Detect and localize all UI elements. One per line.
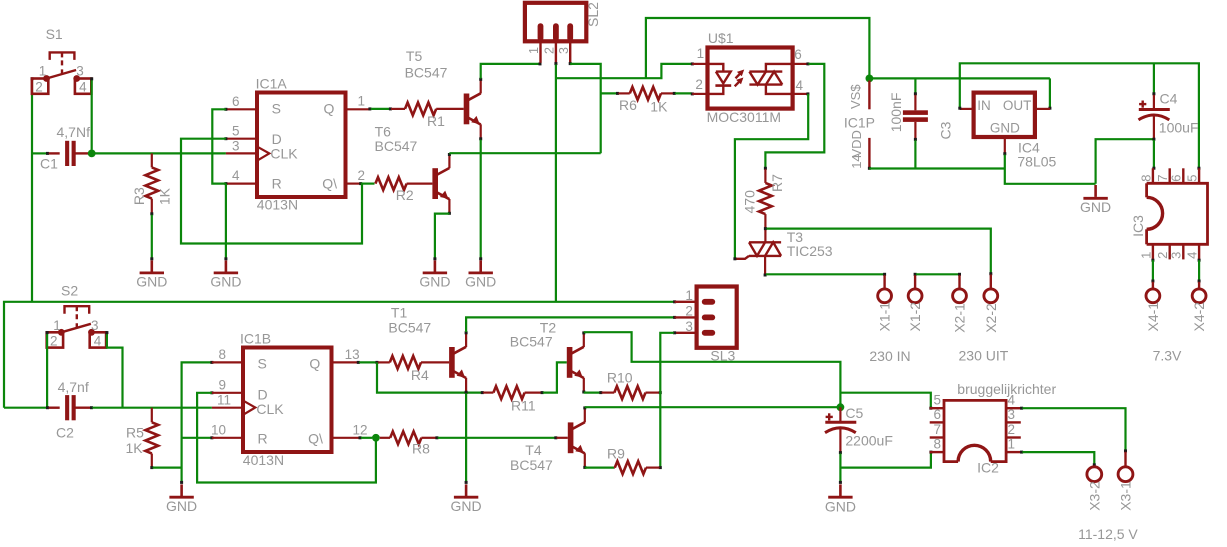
transistor T4 BC547 [510,407,585,473]
svg-text:T1: T1 [391,305,408,321]
ground GND under T5 [465,257,496,289]
capacitor C3 100nF [888,78,953,168]
IC IC3 (DIL8) [1130,183,1207,244]
pin 2 of U$1 [691,77,708,95]
svg-text:X4-1: X4-1 [1145,302,1161,332]
wire C4 bottom to IC3 pin8 [1152,140,1155,170]
svg-text:4: 4 [232,168,240,183]
pin 4 of IC2 [1006,393,1021,409]
pin 3 of IC2 [1006,407,1021,423]
svg-text:S2: S2 [61,283,78,299]
wire 12V rail right [958,63,1200,169]
pin 7 of IC3 [1155,168,1170,183]
svg-text:1: 1 [358,94,366,109]
terminal X2-1 [952,275,968,333]
terminal X4-2 [1191,282,1207,332]
node VS junction dot [866,75,874,83]
svg-text:7: 7 [1155,175,1170,182]
wire X1-2 to X2-1 [914,273,961,276]
pin 7 of IC2 [930,422,944,438]
svg-text:5: 5 [232,124,240,139]
svg-text:3: 3 [1169,252,1184,259]
svg-text:S: S [272,100,281,116]
ground GND under R5/IC1B [166,481,197,514]
terminal X3-1 [1118,452,1134,511]
svg-text:3: 3 [557,47,571,54]
svg-text:2: 2 [35,80,43,95]
svg-text:1: 1 [685,288,693,303]
wire IC2 pin1 to X3-2 [1020,451,1096,467]
pin 2 of SL3 [675,304,697,319]
transistor T5 BC547 [405,48,481,139]
wire R5 bottom to gnd net [153,467,182,469]
svg-text:1K: 1K [157,187,173,205]
capacitor C5 2200uF [825,405,893,454]
svg-text:8: 8 [218,347,226,362]
svg-text:IC1A: IC1A [256,76,288,92]
svg-text:7: 7 [933,422,941,437]
wire T1 collector to SL3 pin2 [465,316,676,334]
svg-text:GND: GND [1080,199,1111,215]
LED inside U$1 [708,64,732,94]
svg-text:C4: C4 [1160,90,1178,106]
svg-text:2: 2 [685,304,693,319]
svg-text:100nF: 100nF [888,93,904,133]
power pin VDD of IC1P [849,130,871,170]
ground GND under IC1A [210,257,241,289]
optocoupler U$1 MOC3011M [707,30,793,125]
svg-text:230 IN: 230 IN [869,348,910,364]
svg-text:R11: R11 [511,397,536,413]
pin 5 of IC2 [930,393,944,409]
svg-text:X3-2: X3-2 [1086,481,1102,511]
resistor R4 [378,356,449,383]
svg-text:R8: R8 [412,441,430,457]
pin 6 of U$1 [793,47,808,64]
label 230 IN [869,348,910,364]
pin 2 Q\ of IC1A [346,168,366,184]
svg-text:4013N: 4013N [243,452,284,468]
svg-text:BC547: BC547 [405,65,448,81]
svg-text:Q\: Q\ [322,176,337,192]
svg-text:7.3V: 7.3V [1153,348,1182,364]
svg-text:3: 3 [685,319,693,334]
svg-text:C1: C1 [40,156,58,172]
svg-text:IC1B: IC1B [240,331,271,347]
svg-text:3: 3 [76,64,84,79]
svg-text:470: 470 [741,190,757,214]
voltage regulator IC4 78L05 [974,93,1057,170]
connector SL3 [697,287,737,364]
svg-text:BC547: BC547 [388,320,431,336]
pin 5 of IC3 [1184,168,1199,183]
wire T3 MT1 to X1-1 [764,273,887,277]
svg-text:1: 1 [1138,252,1153,259]
wire rail S2 row [4,300,676,407]
svg-text:Q: Q [309,355,320,371]
svg-text:R10: R10 [607,369,633,385]
capacitor C2 4,7nf [46,379,93,440]
pin 1 of U$1 [692,46,707,64]
svg-text:2: 2 [1155,252,1170,259]
pin 6 of IC2 [930,407,944,423]
wire SL2 pin3 to T6 collector [569,62,601,153]
svg-text:BC547: BC547 [375,138,418,154]
pin 8 of IC2 [930,437,944,453]
svg-text:BC547: BC547 [510,334,553,350]
svg-text:U$1: U$1 [708,30,734,46]
pin 8 of IC3 [1138,168,1153,183]
label 230 UIT [959,348,1009,364]
svg-text:R: R [272,176,282,192]
wire T5 emitter to ground [479,137,482,258]
svg-text:10: 10 [211,422,226,437]
svg-text:100uF: 100uF [1159,119,1199,135]
svg-text:3: 3 [91,318,99,333]
wire VDD rail to IC4 gnd net [869,167,1004,169]
svg-text:S: S [258,355,267,371]
ground GND under R3 [136,257,167,289]
transistor T2 BC547 [510,320,584,393]
svg-text:S1: S1 [46,26,63,42]
pin 5 D of IC1A [226,124,257,139]
resistor R7 470 [741,169,785,242]
pin 13 Q of IC1B [332,347,360,363]
IC op-amp IC1A 4013N flip-flop [256,76,346,213]
wire T2 collector to C5 node [582,331,840,406]
terminal X4-1 [1145,282,1161,332]
pin 3 CLK of IC1A [226,138,257,153]
svg-text:1: 1 [39,64,47,79]
svg-text:C2: C2 [56,424,74,440]
ground GND under T1 [451,481,482,514]
svg-text:2: 2 [695,77,703,92]
svg-text:11: 11 [217,393,231,408]
pin 4 of IC3 [1184,244,1199,259]
wire top rail to VS node [646,18,870,78]
pin 6 S of IC1A [226,94,257,109]
wire R8 to T4 base [438,436,568,439]
svg-text:GND: GND [210,274,241,290]
svg-text:X2-1: X2-1 [952,303,968,333]
wire S-R tie of IC1A [212,108,227,185]
svg-text:IN: IN [977,98,991,113]
svg-text:T4: T4 [525,442,542,458]
resistor R10 [602,369,662,399]
svg-text:13: 13 [345,347,360,362]
terminal X3-2 [1086,466,1102,511]
light arrows inside U$1 [735,70,745,87]
svg-text:CLK: CLK [270,146,298,162]
svg-text:2: 2 [358,168,366,183]
wire R3 to ground [150,212,153,258]
svg-text:GND: GND [166,498,197,514]
pin 1 Q of IC1A [346,94,371,110]
svg-text:X1-2: X1-2 [907,302,923,332]
pin 8 S of IC1B [212,347,243,362]
svg-text:6: 6 [794,47,802,62]
pin 4 of U$1 [793,78,808,94]
wire R11 to T2 base [543,362,567,392]
svg-text:1: 1 [1008,437,1016,452]
svg-text:GND: GND [451,498,482,514]
svg-text:R3: R3 [131,187,147,205]
pin 12 Q\ of IC1B [332,422,368,438]
pin 4 R of IC1A [226,168,257,184]
pin 3 of IC3 [1169,244,1184,259]
svg-text:4: 4 [796,78,804,93]
pin OUT of IC4 [1035,108,1050,110]
resistor R3 1K [131,153,173,213]
svg-text:C5: C5 [845,405,863,421]
svg-text:R1: R1 [427,113,445,129]
wire pin12 to R8 node [359,436,373,439]
wire IC4 gnd to C4 gnd net [1005,139,1153,184]
wire T4 emitter to R9 [583,466,614,469]
svg-text:4: 4 [1184,252,1199,259]
terminal X1-2 [907,275,923,331]
svg-text:3: 3 [232,138,240,153]
wire C5 bottom to IC2 pin8 and ground [840,451,932,482]
svg-text:GND: GND [990,121,1020,136]
wire pin13 to R4 [357,361,379,364]
pin 1 of IC3 [1138,244,1153,259]
svg-text:X4-2: X4-2 [1191,302,1207,332]
svg-text:6: 6 [933,407,941,422]
svg-text:4: 4 [94,334,102,349]
svg-text:X2-2: X2-2 [983,303,999,333]
svg-text:4: 4 [79,80,87,95]
triac T3 TIC253 [736,229,833,274]
capacitor C1 4,7Nf [40,124,90,172]
resistor R9 [607,445,660,474]
wire T6 emitter to ground [435,212,451,258]
wire T4 collector to C5 node [583,406,840,409]
svg-text:14: 14 [849,154,864,168]
wire C2 to CLK row B [92,407,212,409]
svg-text:9: 9 [218,378,226,393]
wire U$1 pin6 to R7 [764,62,824,169]
node R8 junction dot [372,434,380,442]
svg-text:T5: T5 [406,48,423,64]
wire T6 collector net [448,153,601,156]
wire SL2 pin2 down to rail [554,62,557,302]
svg-text:1: 1 [697,46,705,61]
label 7.3V [1153,348,1182,364]
wire T5 collector to SL2 pin1 [479,62,541,80]
resistor R1 [368,103,463,130]
svg-text:GND: GND [465,274,496,290]
wire S1 pin4 down [90,77,93,150]
svg-text:6: 6 [1169,175,1184,182]
resistor R6 1K [601,87,692,114]
photo-triac inside U$1 [749,64,792,94]
svg-text:2: 2 [50,334,58,349]
capacitor C4 100uF [1139,63,1199,140]
pin 11 CLK of IC1B [212,393,243,408]
svg-text:MOC3011M: MOC3011M [707,109,781,125]
bridge rectifier IC2 [944,381,1056,476]
pin IN of IC4 [960,108,974,110]
wire S2 pin4 down [105,331,122,408]
wire C5 node to IC2 pin5 [840,393,932,410]
svg-text:R5: R5 [126,424,144,440]
ground GND under IC4 [1080,185,1111,215]
svg-text:4: 4 [1008,393,1016,408]
svg-text:GND: GND [419,274,450,290]
svg-text:2: 2 [1008,422,1016,437]
svg-text:230 UIT: 230 UIT [959,348,1009,364]
pin 1 of SL3 [675,288,697,303]
svg-text:8: 8 [933,437,941,452]
power pin VSS of IC1P [848,81,869,110]
wire T1 base node to R11 [377,362,484,394]
svg-text:R: R [258,431,268,447]
svg-text:6: 6 [232,94,240,109]
svg-text:Q: Q [324,100,335,116]
transistor T6 BC547 [375,123,450,214]
pin 1 of IC2 [1006,437,1021,453]
wire IC1A R to ground [225,184,227,259]
svg-text:BC547: BC547 [510,457,553,473]
pin 10 R of IC1B [211,422,243,438]
svg-text:2: 2 [542,47,556,54]
svg-text:IC1P: IC1P [844,115,875,131]
wire R7/triac MT2 node to X2-2 [764,227,992,275]
wire T2 emitter to R10 [582,391,602,395]
svg-text:4,7nf: 4,7nf [58,379,89,395]
switch S2 [47,283,106,349]
svg-text:GND: GND [825,498,856,514]
svg-text:8: 8 [1138,175,1153,182]
svg-text:IC2: IC2 [977,459,999,475]
svg-text:IC3: IC3 [1130,215,1146,237]
resistor R8 [380,431,439,456]
pin 6 of IC3 [1169,168,1184,183]
pin 2 of IC2 [1006,422,1021,438]
svg-text:1: 1 [53,318,61,333]
wire IC3 pin4 to X4-2 [1198,259,1201,283]
svg-text:R4: R4 [411,367,429,383]
svg-text:C3: C3 [937,121,953,139]
wire C1 to CLK row [92,152,226,154]
transistor T1 BC547 [388,305,466,393]
svg-text:R7: R7 [769,174,785,192]
svg-text:SL2: SL2 [585,2,601,27]
svg-text:1K: 1K [650,98,668,114]
svg-text:R2: R2 [396,187,414,203]
svg-text:GND: GND [136,274,167,290]
wire opto pin1 net [556,62,694,78]
label IC1P [844,115,875,131]
resistor R2 [375,177,432,203]
svg-text:R6: R6 [619,97,637,113]
svg-text:VS$: VS$ [848,84,863,109]
svg-text:4,7Nf: 4,7Nf [57,124,91,140]
svg-text:VDD: VDD [849,130,864,157]
resistor R5 1K [126,408,159,469]
svg-text:11-12,5 V: 11-12,5 V [1078,526,1138,542]
wire D to Q\ feedback of IC1B [197,391,376,482]
svg-text:2200uF: 2200uF [845,432,892,448]
wire U$1 pin4 to T3 gate [733,92,809,260]
pin 3 of SL3 [675,319,697,334]
ground GND under T6 [419,257,450,289]
wire S-R tie of IC1B [182,361,214,482]
pin 2 of IC3 [1155,244,1170,259]
pin GND of IC4 [1003,137,1006,155]
resistor R11 [483,386,543,413]
svg-text:SL3: SL3 [710,347,735,363]
node C5 junction dot [837,403,845,411]
wire SL3 pin3 down [659,331,676,469]
svg-text:CLK: CLK [256,401,284,417]
svg-text:78L05: 78L05 [1017,154,1056,170]
wire IC3 pin1 to X4-1 [1151,259,1154,283]
svg-text:5: 5 [933,393,941,408]
wire S2 pin2 down [46,331,49,407]
connector SL2 [525,2,601,63]
svg-text:12: 12 [353,422,368,437]
svg-text:TIC253: TIC253 [787,243,833,259]
wire IC2 pin4 to X3-1 [1020,407,1127,453]
svg-text:1K: 1K [126,440,144,456]
terminal X1-1 [877,275,893,331]
svg-text:5: 5 [1184,175,1199,182]
wire VS rail to 78L05 OUT [869,78,1051,109]
wire D to Q\ feedback of IC1A [181,137,375,243]
svg-text:X1-1: X1-1 [877,302,893,332]
terminal X2-2 [983,275,999,333]
svg-text:OUT: OUT [1003,98,1032,113]
wire T1 emitter to ground [465,391,468,482]
svg-text:1: 1 [527,47,541,54]
label 11-12,5 V [1078,526,1138,542]
wire rail VCC top-left (S1 pin2 net) [31,77,48,301]
svg-text:Q\: Q\ [308,431,323,447]
svg-text:4013N: 4013N [257,197,298,213]
node C1-S1 junction dot [88,150,96,158]
svg-text:X3-1: X3-1 [1118,481,1134,511]
pin 9 D of IC1B [212,378,243,393]
svg-text:R9: R9 [607,445,625,461]
ground GND under C5 [825,481,856,514]
IC IC1B 4013N flip-flop [240,331,332,468]
switch S1 [32,26,91,95]
svg-text:3: 3 [1008,407,1016,422]
